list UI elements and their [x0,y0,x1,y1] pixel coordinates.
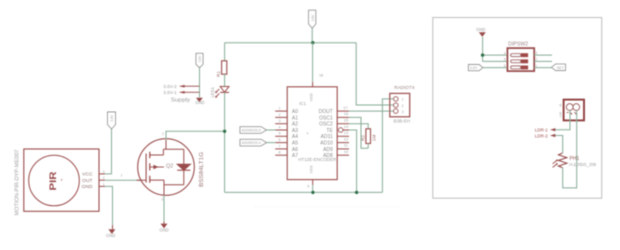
svg-text:IR: IR [559,104,563,107]
svg-text:NET: NET [557,66,565,70]
svg-text:13: 13 [344,130,349,135]
svg-text:3.6V: 3.6V [470,66,478,70]
pin stub PIR OUT [99,179,105,181]
svg-text:2: 2 [162,132,164,136]
svg-text:9: 9 [307,185,309,189]
wire TE to ground rail [349,130,357,192]
wire 3.6V to connector pin 2 [356,43,393,105]
svg-text:R2: R2 [361,135,366,141]
svg-text:Supply: Supply [171,98,191,104]
wire VDD pin 18 [312,43,314,82]
svg-text:6: 6 [504,64,506,68]
net flag 3.6V above IC [309,10,316,28]
drain connection top [150,149,184,155]
wire PIR GND to ground [105,186,113,225]
wire supply [199,68,201,98]
svg-text:A4: A4 [292,134,298,140]
svg-text:3.6V-2: 3.6V-2 [163,84,177,89]
svg-text:BSS84LT1G: BSS84LT1G [199,152,205,187]
svg-text:A0: A0 [292,109,298,115]
svg-text:2: 2 [402,104,404,108]
wire Q2 source to ground [163,195,165,221]
svg-text:1M: 1M [371,135,376,142]
svg-text:3.6V: 3.6V [311,14,315,21]
svg-text:3.6V: 3.6V [198,55,202,62]
svg-text:5: 5 [504,58,506,62]
junction LED/Q2 [223,130,226,133]
svg-text:3.6V: 3.6V [110,114,114,121]
wire flag to VDD rail [311,28,313,43]
svg-text:ADDRESS-4: ADDRESS-4 [241,141,261,145]
wire DOUT to connector pin 3 [349,110,394,112]
net flag 3.6V left [108,112,116,129]
label 3.6V-2 [163,84,199,89]
connector RADIOTX B3B-EH [390,85,416,123]
svg-text:17: 17 [343,105,348,110]
wire OSC1 to R2 bottom [349,117,368,148]
wire ADDRESS-5 to pin 4 [267,129,276,131]
wire 3.6V top rail [225,42,357,44]
svg-text:AD8: AD8 [323,153,333,159]
svg-text:4: 4 [278,125,280,129]
pin stub PIR GND [99,185,105,187]
ground GND (panel) [476,27,486,37]
sensor IR/LDR package [559,100,585,121]
switch DIPSW2 [504,41,538,71]
svg-text:6: 6 [278,138,280,142]
net flag ADDRESS-4 [240,139,267,146]
svg-text:2: 2 [278,113,280,117]
svg-text:18: 18 [319,73,323,77]
right panel frame [433,18,602,199]
wire DIP row2 right [534,60,552,62]
svg-text:VSS: VSS [309,165,314,173]
wire OSC2 to R2 top [349,124,368,129]
transistor Q2 BSS84LT1G [121,132,205,201]
photoresistor PH1 A1050_09 [553,153,597,168]
svg-text:LDR-2: LDR-2 [535,133,549,138]
gate pin [137,179,147,181]
svg-text:12: 12 [344,136,349,141]
svg-text:TE: TE [326,128,333,134]
net flag ADDRESS-5 [240,127,267,134]
resistor R2 1M [361,129,377,148]
svg-text:AD11: AD11 [321,134,333,140]
svg-text:OSC2: OSC2 [319,122,333,128]
pin 18 stub [312,82,314,87]
faint dotted artifact top [240,46,356,48]
label LDR-1 [535,128,556,133]
svg-text:+: + [60,178,63,183]
wire ADDRESS-4 to pin 6 [267,142,276,144]
svg-text:GND: GND [159,228,168,233]
svg-text:5: 5 [278,132,280,136]
svg-text:VDD: VDD [309,93,314,102]
faint dotted artifact bottom [255,206,400,208]
pins 17-10 right stubs [337,111,349,155]
svg-text:PIR: PIR [47,171,58,190]
wire 3.6V flag to DIP row 3 [483,67,508,69]
pin 14 TE bubble [339,128,343,132]
junction GND wire [481,53,484,56]
svg-text:LDR: LDR [559,112,563,118]
svg-text:AD10: AD10 [320,141,333,147]
svg-text:1: 1 [121,173,123,177]
svg-text:PH1: PH1 [570,156,580,162]
svg-text:16: 16 [344,111,349,116]
source connection bottom [150,180,184,195]
wire LDR-2 to PH1 top [555,136,562,153]
wire DIP row1 right [534,54,552,56]
ground GND (PIR) [106,225,115,238]
wire VSS to rail [312,185,314,192]
svg-text:MOTION-PIR-DYP-ME007: MOTION-PIR-DYP-ME007 [15,149,21,215]
wire LED1 down to rail [224,92,226,192]
net flag SET [552,64,566,70]
svg-text:3.6V-1: 3.6V-1 [163,90,177,95]
svg-text:A2: A2 [292,122,298,128]
svg-text:3: 3 [402,110,404,114]
svg-text:3: 3 [161,198,163,202]
svg-text:GND: GND [476,27,485,32]
channel segments [149,152,151,183]
ground GND (Q2) [159,222,168,233]
resistor R1 [216,61,227,77]
svg-text:GND: GND [82,184,93,190]
svg-text:Q2: Q2 [166,164,173,170]
net flag 3.6V (panel) [468,65,482,71]
svg-text:2: 2 [103,176,105,180]
svg-text:IC1: IC1 [299,101,306,106]
junction VDD [311,41,314,44]
svg-text:B3B-EH: B3B-EH [394,118,411,123]
wire Q2 drain to LED column [166,131,225,140]
svg-text:DIPSW2: DIPSW2 [508,41,528,47]
svg-text:A3: A3 [292,128,298,134]
svg-text:OSC1: OSC1 [319,115,333,121]
ground rail bottom [225,191,383,193]
svg-text:AD9: AD9 [323,147,333,153]
svg-text:4: 4 [504,51,506,55]
junction TE rail [355,191,358,194]
svg-text:A5: A5 [292,141,298,147]
svg-text:A7: A7 [292,153,298,159]
svg-text:R1: R1 [216,71,221,77]
wire sensor left leg to LDR-1 [555,110,570,129]
svg-text:1: 1 [103,182,105,186]
ground GND (supply) [195,98,204,105]
wire 3.6V to PIR VCC [105,129,112,174]
svg-text:VCC: VCC [82,172,93,178]
substrate arrow [150,166,164,168]
svg-text:14: 14 [344,124,349,129]
svg-text:OUT: OUT [82,178,92,184]
svg-text:7: 7 [278,144,280,148]
wire DIP row3 right to flag [534,67,551,69]
wire PIR OUT to Q2 gate [105,179,141,181]
svg-text:15: 15 [344,118,349,123]
svg-text:RADIOTX: RADIOTX [394,85,415,91]
svg-text:GND: GND [106,233,115,238]
svg-text:+: + [306,131,309,136]
svg-text:A6: A6 [292,147,298,153]
wire PH1 bottom to sensor right leg [563,110,577,187]
svg-text:DOUT: DOUT [319,109,333,115]
svg-text:GND: GND [195,100,204,105]
pin stub PIR VCC [99,173,105,175]
svg-text:A1050_09: A1050_09 [569,162,596,168]
IC U1 HT12E-ENCODER [287,87,337,180]
svg-text:LED1: LED1 [210,87,215,98]
module PIR (MOTION-PIR-DYP-ME007) [15,149,105,216]
svg-text:8: 8 [278,151,280,155]
svg-text:A1: A1 [292,115,298,121]
label LDR-2 [535,133,556,138]
svg-text:10: 10 [344,149,349,154]
label 3.6V-1 [163,90,199,95]
pins 1-8 left stubs [275,111,287,155]
svg-text:3: 3 [103,170,105,174]
svg-text:3: 3 [278,119,280,123]
wire R1 top [224,43,226,61]
wire GND to DIP rows [483,37,508,62]
svg-text:1: 1 [402,98,404,102]
svg-text:LDR-1: LDR-1 [535,128,549,133]
pin 9 stub [312,180,314,185]
wire R1 to LED1 [224,74,226,86]
supply tag 3.6V (battery label) [196,53,203,67]
junction VSS rail [311,191,314,194]
LED LED1 [210,87,229,98]
svg-text:ADDRESS-5: ADDRESS-5 [241,129,261,133]
svg-text:1: 1 [278,107,280,111]
body diode [183,149,185,185]
wire rail riser to connector pin 1 [382,99,393,192]
